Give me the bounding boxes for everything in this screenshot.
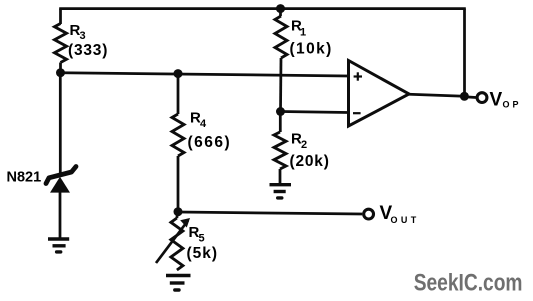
resistor R5 (variable) [171, 218, 183, 270]
svg-text:N821: N821 [7, 170, 42, 186]
wire noninverting input (node A to op-amp +) [61, 73, 349, 76]
ground (R2) [270, 185, 292, 198]
node Vout junction dot [174, 207, 183, 216]
svg-text:5: 5 [199, 232, 205, 244]
svg-text:SeekIC.com: SeekIC.com [414, 268, 523, 296]
zener diode N821 cathode bar [46, 167, 76, 184]
resistor R2 [274, 132, 286, 169]
svg-text:V: V [490, 90, 503, 111]
wire R3 bottom to node A [59, 63, 62, 74]
svg-text:3: 3 [80, 30, 86, 42]
wire output node to terminal [464, 95, 476, 98]
wire R4 top lead [177, 74, 180, 114]
op-amp minus sign [353, 112, 361, 114]
svg-text:(20k): (20k) [290, 153, 330, 170]
svg-text:OUT: OUT [391, 215, 420, 225]
wire R1 bottom to inverting node [279, 58, 282, 112]
svg-text:(666): (666) [188, 134, 232, 151]
wire R1 top lead [279, 9, 282, 16]
node A junction dot [56, 68, 65, 77]
wire node A down to zener [59, 73, 62, 176]
zener diode N821 anode triangle [50, 177, 70, 193]
wire R4 bottom to node Vout [177, 156, 180, 212]
svg-text:(10k): (10k) [290, 40, 333, 57]
op-amp U1 [349, 61, 410, 127]
node R4 junction dot [174, 69, 183, 78]
wire left vertical top (rail to R3) [59, 9, 62, 24]
svg-text:(333): (333) [68, 42, 108, 59]
wire R2 top lead [279, 112, 282, 133]
wire Vout node to terminal [178, 212, 362, 214]
arrow of R5 [156, 221, 188, 264]
svg-text:OP: OP [503, 100, 522, 110]
svg-text:(5k): (5k) [187, 245, 219, 262]
ground (R5) [166, 276, 191, 291]
terminal Vop circle [477, 93, 487, 103]
wire R2 bottom to ground [279, 169, 282, 184]
wire zener to ground [59, 193, 62, 240]
ground (zener) [48, 239, 69, 252]
wire top rail [59, 7, 466, 10]
terminal Vout circle [364, 209, 374, 219]
wire inverting input [281, 112, 349, 113]
node output junction dot [460, 92, 469, 101]
svg-text:4: 4 [200, 118, 207, 130]
wire feedback vertical [463, 9, 466, 97]
node inverting junction dot [276, 107, 285, 116]
resistor R4 [172, 114, 184, 156]
resistor R1 [275, 16, 287, 58]
resistor R3 [55, 24, 67, 63]
svg-text:1: 1 [300, 27, 306, 39]
op-amp plus sign [354, 72, 362, 80]
svg-text:2: 2 [301, 139, 307, 151]
wire R5 top lead [176, 212, 179, 218]
wire op-amp output [409, 94, 465, 96]
node R1 top junction dot [276, 4, 285, 13]
